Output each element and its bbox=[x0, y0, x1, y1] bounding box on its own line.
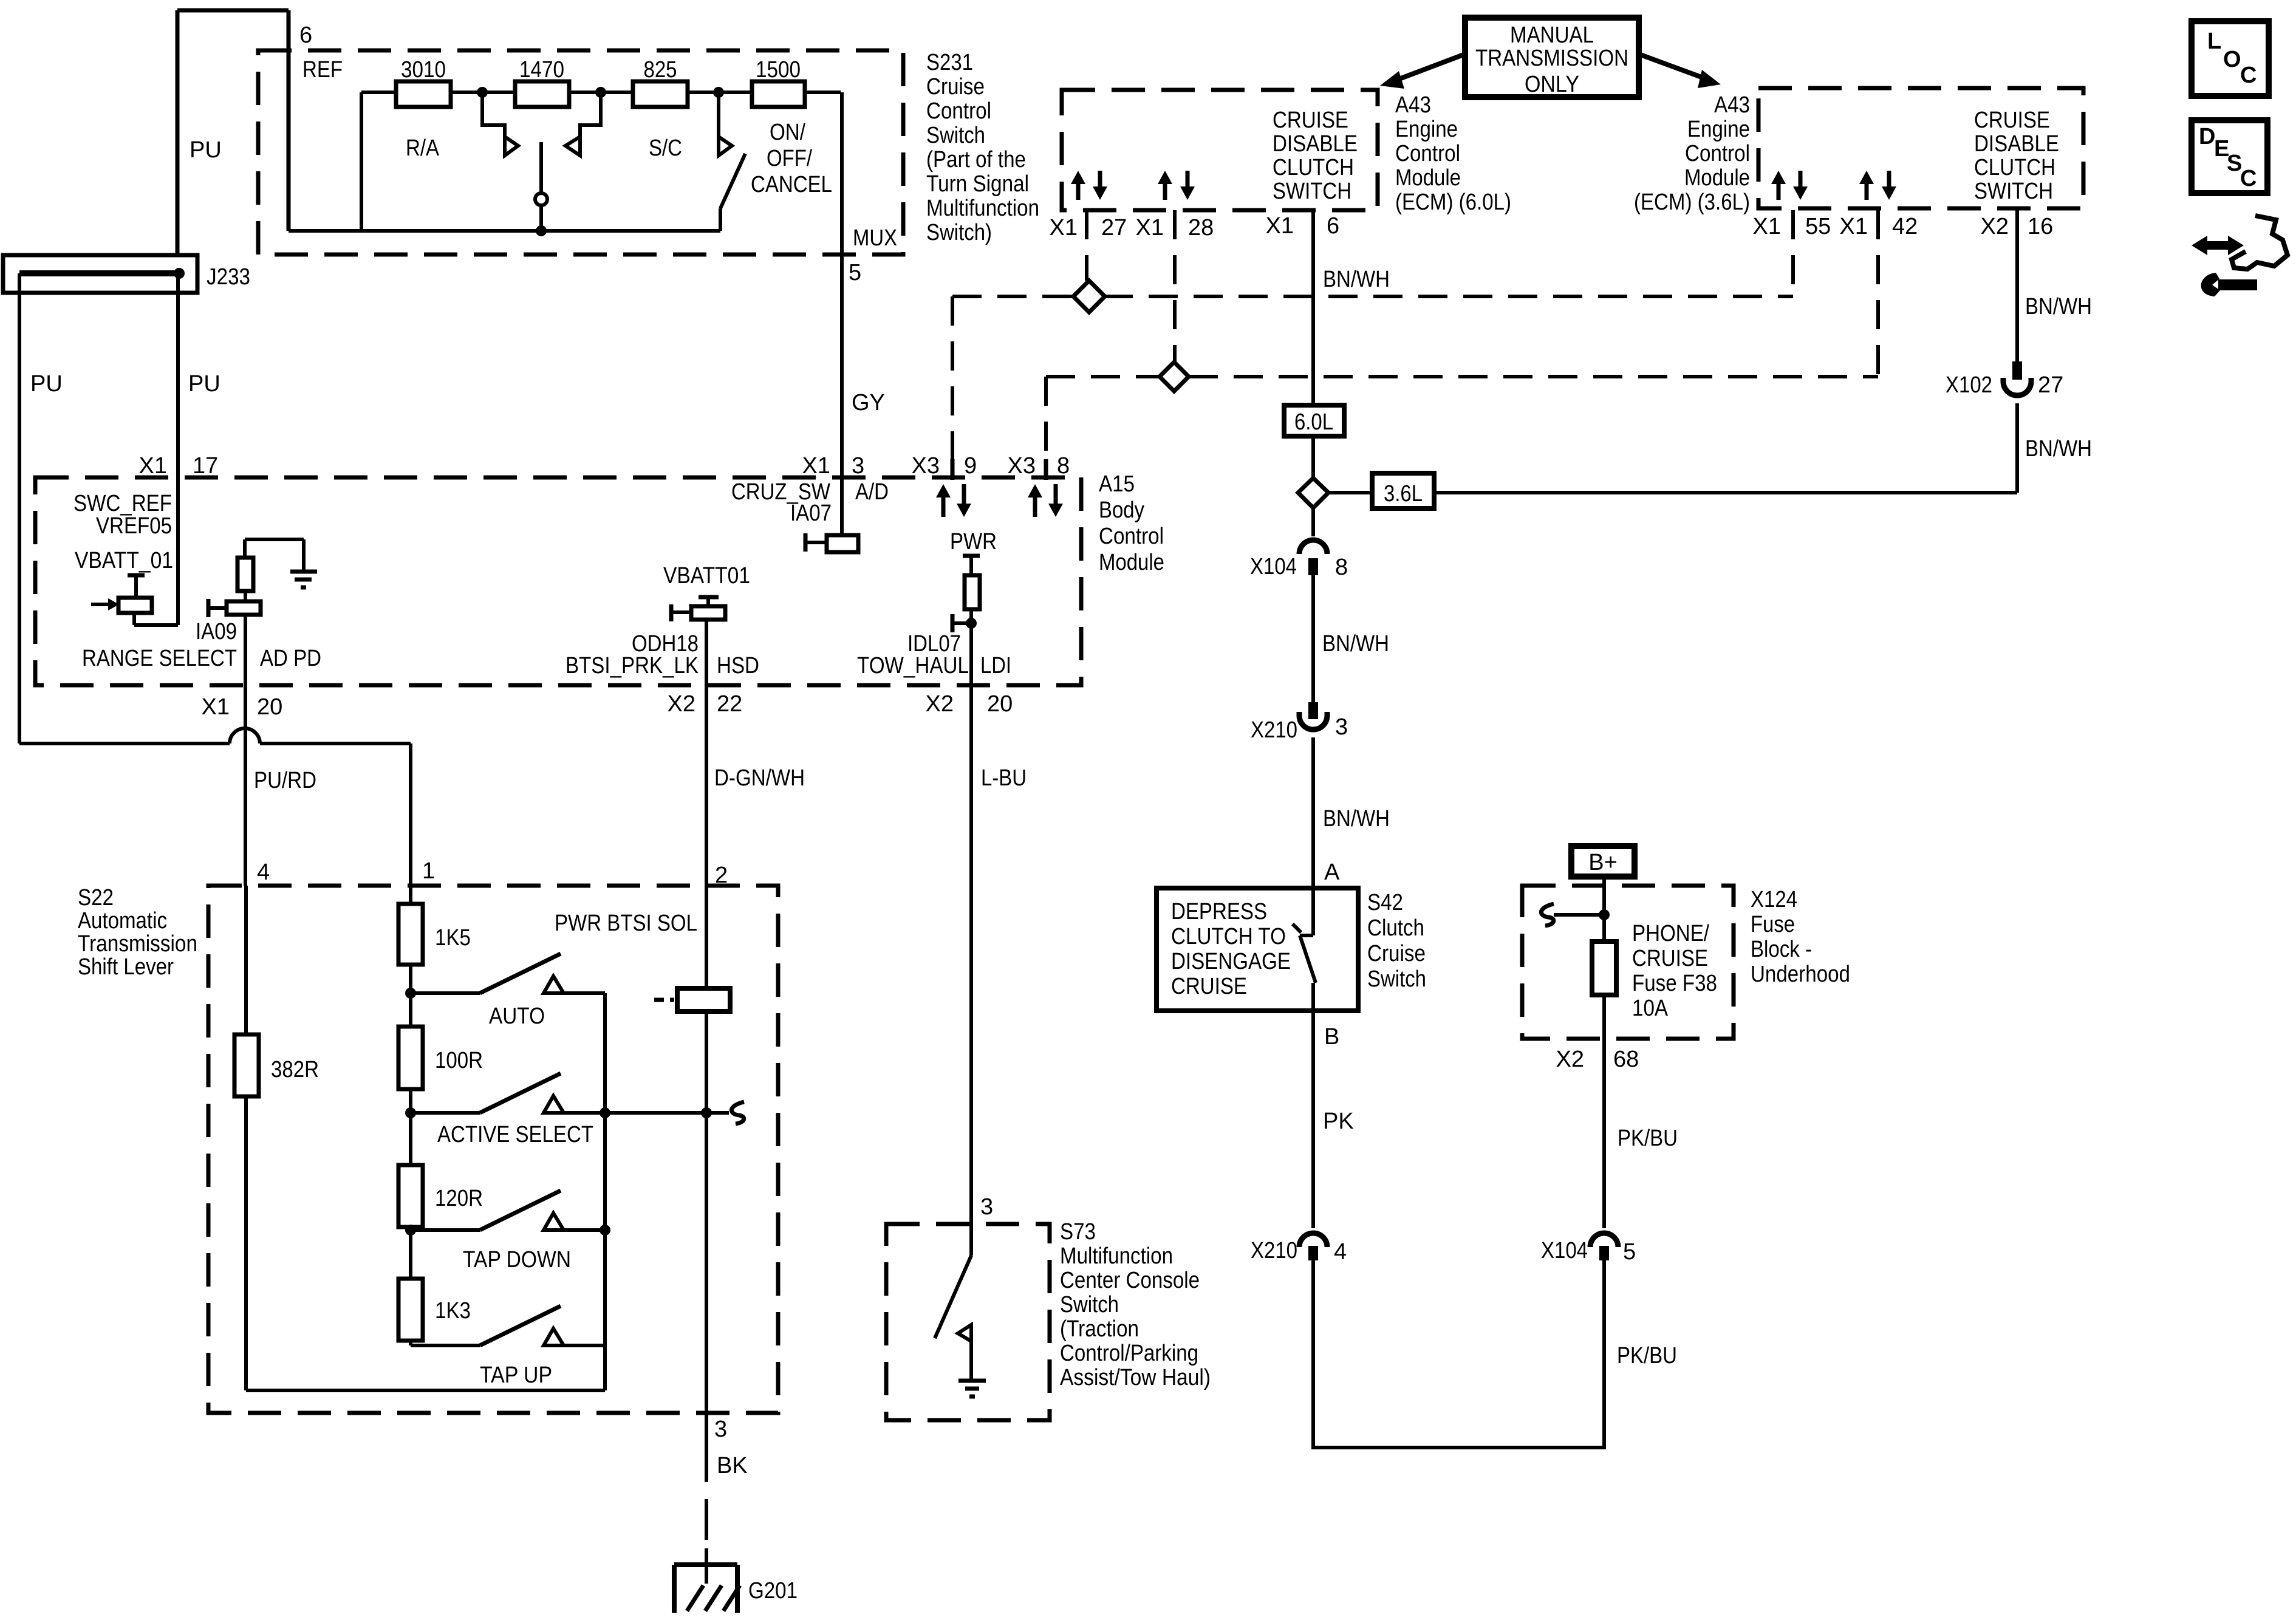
svg-text:Block -: Block - bbox=[1751, 937, 1812, 962]
svg-text:MANUAL: MANUAL bbox=[1510, 22, 1594, 48]
svg-text:Control: Control bbox=[1099, 524, 1164, 549]
svg-text:L-BU: L-BU bbox=[981, 765, 1027, 791]
svg-text:X2: X2 bbox=[1556, 1047, 1584, 1072]
svg-text:RANGE SELECT: RANGE SELECT bbox=[82, 646, 237, 671]
svg-text:GY: GY bbox=[852, 390, 885, 415]
svg-text:PWR: PWR bbox=[950, 529, 997, 555]
svg-text:CANCEL: CANCEL bbox=[751, 172, 832, 197]
svg-text:3: 3 bbox=[1335, 714, 1348, 740]
svg-text:IA09: IA09 bbox=[196, 619, 237, 644]
svg-text:8: 8 bbox=[1057, 453, 1070, 479]
svg-text:5: 5 bbox=[849, 260, 861, 285]
svg-text:(Part of the: (Part of the bbox=[926, 147, 1026, 173]
svg-text:(Traction: (Traction bbox=[1060, 1316, 1139, 1342]
svg-text:PU/RD: PU/RD bbox=[254, 768, 316, 793]
svg-text:SWC_REF: SWC_REF bbox=[73, 491, 172, 516]
svg-text:OFF/: OFF/ bbox=[767, 146, 812, 171]
svg-text:BN/WH: BN/WH bbox=[2025, 436, 2092, 462]
svg-text:J233: J233 bbox=[207, 264, 250, 290]
svg-text:2: 2 bbox=[715, 863, 728, 888]
svg-text:PK: PK bbox=[1323, 1109, 1354, 1134]
svg-text:CLUTCH TO: CLUTCH TO bbox=[1171, 924, 1286, 949]
svg-text:X1: X1 bbox=[1266, 213, 1294, 239]
svg-text:16: 16 bbox=[2028, 214, 2053, 239]
svg-text:DISENGAGE: DISENGAGE bbox=[1171, 949, 1291, 974]
svg-text:X1: X1 bbox=[139, 453, 167, 479]
svg-text:(ECM) (3.6L): (ECM) (3.6L) bbox=[1634, 190, 1750, 215]
svg-text:Switch): Switch) bbox=[926, 220, 992, 245]
svg-text:X104: X104 bbox=[1250, 554, 1297, 579]
svg-text:Control: Control bbox=[1395, 141, 1460, 166]
svg-text:ON/: ON/ bbox=[770, 120, 805, 145]
svg-text:X1: X1 bbox=[1840, 214, 1868, 239]
svg-text:X210: X210 bbox=[1251, 1238, 1297, 1263]
svg-text:S/C: S/C bbox=[649, 135, 682, 161]
svg-text:Module: Module bbox=[1684, 165, 1750, 191]
svg-text:10A: 10A bbox=[1632, 996, 1669, 1021]
svg-text:A15: A15 bbox=[1099, 471, 1135, 497]
svg-text:L: L bbox=[2207, 29, 2221, 54]
svg-text:Fuse: Fuse bbox=[1751, 912, 1795, 937]
svg-text:Module: Module bbox=[1395, 165, 1461, 191]
svg-text:Body: Body bbox=[1099, 497, 1144, 523]
svg-text:DISABLE: DISABLE bbox=[1974, 131, 2059, 157]
svg-text:VREF05: VREF05 bbox=[96, 513, 172, 539]
svg-text:A: A bbox=[1324, 860, 1340, 885]
svg-text:SWITCH: SWITCH bbox=[1974, 179, 2053, 204]
svg-text:8: 8 bbox=[1335, 555, 1348, 580]
svg-text:825: 825 bbox=[644, 57, 677, 83]
svg-text:X1: X1 bbox=[202, 694, 230, 720]
svg-text:A43: A43 bbox=[1395, 92, 1431, 118]
svg-text:100R: 100R bbox=[435, 1048, 483, 1073]
svg-text:DISABLE: DISABLE bbox=[1273, 131, 1358, 157]
svg-text:SWITCH: SWITCH bbox=[1273, 179, 1351, 204]
svg-text:G201: G201 bbox=[748, 1578, 798, 1604]
svg-text:Turn Signal: Turn Signal bbox=[926, 171, 1029, 197]
svg-text:Cruise: Cruise bbox=[1367, 941, 1426, 966]
svg-text:Shift Lever: Shift Lever bbox=[78, 954, 174, 980]
svg-text:A43: A43 bbox=[1714, 92, 1750, 118]
svg-text:PWR BTSI SOL: PWR BTSI SOL bbox=[555, 911, 697, 936]
svg-text:DEPRESS: DEPRESS bbox=[1171, 899, 1267, 925]
svg-text:S42: S42 bbox=[1367, 890, 1403, 915]
svg-text:120R: 120R bbox=[435, 1186, 483, 1211]
svg-text:X210: X210 bbox=[1251, 717, 1297, 743]
svg-text:6: 6 bbox=[299, 22, 312, 48]
svg-text:D-GN/WH: D-GN/WH bbox=[714, 765, 805, 791]
svg-text:D: D bbox=[2199, 124, 2215, 149]
svg-text:Multifunction: Multifunction bbox=[1060, 1243, 1173, 1269]
svg-text:Assist/Tow Haul): Assist/Tow Haul) bbox=[1060, 1365, 1211, 1390]
svg-text:C: C bbox=[2240, 63, 2257, 88]
svg-text:Underhood: Underhood bbox=[1751, 962, 1850, 987]
svg-text:X2: X2 bbox=[1981, 214, 2009, 239]
svg-text:BN/WH: BN/WH bbox=[1323, 806, 1390, 832]
svg-text:6.0L: 6.0L bbox=[1294, 409, 1333, 435]
svg-text:BN/WH: BN/WH bbox=[1322, 631, 1389, 657]
svg-text:Automatic: Automatic bbox=[78, 908, 167, 934]
svg-text:4: 4 bbox=[1334, 1239, 1347, 1265]
svg-text:27: 27 bbox=[2038, 372, 2063, 398]
svg-text:6: 6 bbox=[1327, 213, 1339, 239]
svg-text:VBATT_01: VBATT_01 bbox=[75, 548, 173, 573]
svg-text:VBATT01: VBATT01 bbox=[663, 563, 750, 589]
svg-text:MUX: MUX bbox=[853, 225, 897, 251]
svg-text:X1: X1 bbox=[802, 453, 830, 479]
svg-text:Switch: Switch bbox=[926, 123, 985, 148]
svg-text:AD PD: AD PD bbox=[260, 646, 321, 671]
svg-text:Control: Control bbox=[1685, 141, 1750, 166]
svg-text:Cruise: Cruise bbox=[926, 74, 985, 100]
svg-text:PK/BU: PK/BU bbox=[1618, 1126, 1678, 1151]
svg-text:A/D: A/D bbox=[855, 479, 889, 505]
svg-text:S73: S73 bbox=[1060, 1219, 1096, 1245]
svg-text:22: 22 bbox=[717, 691, 742, 717]
svg-text:X1: X1 bbox=[1753, 214, 1781, 239]
svg-text:X2: X2 bbox=[668, 691, 695, 717]
svg-text:PU: PU bbox=[190, 137, 222, 163]
svg-text:Clutch: Clutch bbox=[1367, 915, 1424, 941]
svg-text:20: 20 bbox=[987, 691, 1013, 717]
svg-text:3.6L: 3.6L bbox=[1384, 481, 1423, 507]
svg-text:Switch: Switch bbox=[1060, 1292, 1119, 1318]
svg-text:Module: Module bbox=[1099, 550, 1164, 575]
svg-text:3: 3 bbox=[980, 1194, 993, 1220]
svg-text:17: 17 bbox=[193, 453, 218, 479]
svg-text:Control/Parking: Control/Parking bbox=[1060, 1341, 1198, 1366]
svg-text:BN/WH: BN/WH bbox=[1323, 267, 1390, 292]
svg-text:B+: B+ bbox=[1588, 850, 1618, 875]
svg-text:68: 68 bbox=[1613, 1047, 1639, 1072]
svg-text:B: B bbox=[1324, 1024, 1339, 1050]
svg-text:PK/BU: PK/BU bbox=[1617, 1343, 1677, 1369]
svg-text:4: 4 bbox=[257, 860, 270, 885]
svg-text:Fuse F38: Fuse F38 bbox=[1632, 971, 1717, 996]
svg-text:1: 1 bbox=[422, 858, 435, 884]
svg-text:LDI: LDI bbox=[980, 653, 1011, 679]
svg-text:TAP UP: TAP UP bbox=[480, 1362, 552, 1388]
svg-text:Transmission: Transmission bbox=[78, 931, 197, 957]
svg-text:REF: REF bbox=[302, 57, 343, 83]
svg-text:BN/WH: BN/WH bbox=[2025, 294, 2092, 320]
svg-text:X104: X104 bbox=[1541, 1238, 1588, 1263]
svg-text:TAP DOWN: TAP DOWN bbox=[463, 1247, 571, 1273]
svg-text:3010: 3010 bbox=[401, 57, 446, 83]
svg-text:Engine: Engine bbox=[1395, 117, 1458, 142]
svg-text:X3: X3 bbox=[1008, 453, 1036, 479]
svg-text:PU: PU bbox=[188, 371, 220, 397]
svg-text:(ECM) (6.0L): (ECM) (6.0L) bbox=[1395, 190, 1511, 215]
svg-text:S231: S231 bbox=[926, 50, 973, 75]
svg-text:CRUISE: CRUISE bbox=[1171, 974, 1247, 999]
svg-text:5: 5 bbox=[1623, 1239, 1636, 1265]
svg-text:S22: S22 bbox=[78, 885, 114, 911]
svg-text:BK: BK bbox=[717, 1453, 748, 1479]
svg-text:R/A: R/A bbox=[406, 135, 440, 161]
svg-text:Control: Control bbox=[926, 98, 991, 124]
svg-text:ONLY: ONLY bbox=[1525, 72, 1579, 97]
svg-text:CLUTCH: CLUTCH bbox=[1273, 155, 1354, 180]
svg-text:TOW_HAUL: TOW_HAUL bbox=[857, 653, 969, 679]
svg-text:1K5: 1K5 bbox=[435, 925, 471, 951]
svg-text:9: 9 bbox=[964, 453, 977, 479]
svg-text:28: 28 bbox=[1188, 215, 1214, 241]
svg-text:X1: X1 bbox=[1050, 215, 1078, 241]
svg-text:PU: PU bbox=[30, 371, 63, 397]
svg-text:HSD: HSD bbox=[717, 653, 759, 679]
svg-text:IA07: IA07 bbox=[790, 501, 832, 526]
svg-text:Switch: Switch bbox=[1367, 966, 1426, 992]
svg-text:X124: X124 bbox=[1751, 887, 1797, 912]
svg-text:27: 27 bbox=[1101, 215, 1127, 241]
svg-text:X2: X2 bbox=[926, 691, 954, 717]
svg-text:PHONE/: PHONE/ bbox=[1632, 921, 1709, 946]
svg-text:Multifunction: Multifunction bbox=[926, 196, 1039, 221]
svg-text:55: 55 bbox=[1805, 214, 1831, 239]
svg-text:42: 42 bbox=[1892, 214, 1918, 239]
svg-text:O: O bbox=[2223, 47, 2241, 72]
svg-text:X3: X3 bbox=[912, 453, 940, 479]
svg-text:1K3: 1K3 bbox=[435, 1298, 471, 1324]
svg-text:3: 3 bbox=[714, 1417, 727, 1442]
svg-text:CRUISE: CRUISE bbox=[1273, 108, 1348, 133]
svg-text:ACTIVE SELECT: ACTIVE SELECT bbox=[437, 1122, 593, 1147]
svg-text:CRUISE: CRUISE bbox=[1974, 108, 2050, 133]
svg-text:20: 20 bbox=[257, 694, 282, 720]
svg-text:Engine: Engine bbox=[1687, 117, 1750, 142]
svg-text:X1: X1 bbox=[1136, 215, 1164, 241]
svg-text:Center Console: Center Console bbox=[1060, 1268, 1200, 1293]
svg-text:AUTO: AUTO bbox=[489, 1003, 545, 1029]
svg-text:1500: 1500 bbox=[756, 57, 801, 83]
svg-text:TRANSMISSION: TRANSMISSION bbox=[1475, 46, 1628, 71]
svg-text:1470: 1470 bbox=[519, 57, 564, 83]
svg-text:BTSI_PRK_LK: BTSI_PRK_LK bbox=[565, 653, 699, 679]
svg-text:CRUISE: CRUISE bbox=[1632, 946, 1708, 971]
svg-text:3: 3 bbox=[852, 453, 864, 479]
svg-text:CLUTCH: CLUTCH bbox=[1974, 155, 2055, 180]
svg-text:382R: 382R bbox=[271, 1057, 319, 1082]
svg-text:X102: X102 bbox=[1946, 372, 1992, 398]
svg-text:C: C bbox=[2240, 166, 2257, 191]
